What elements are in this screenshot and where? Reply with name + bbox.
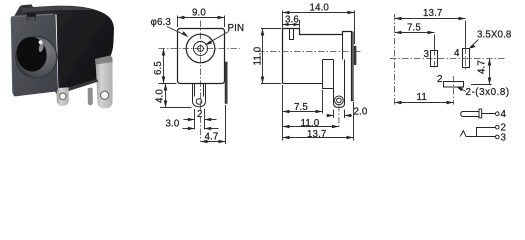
dim 7.5 top bbox=[395, 23, 435, 70]
svg-text:7.5: 7.5 bbox=[407, 23, 421, 34]
svg-text:4.7: 4.7 bbox=[477, 60, 488, 74]
label 2-(3x0.8) with leader bbox=[456, 87, 509, 98]
dim 9.0 bbox=[178, 8, 225, 28]
photo: face top edge highlight bbox=[12, 14, 52, 16]
photo: front face bbox=[11, 14, 58, 97]
svg-text:9.0: 9.0 bbox=[192, 8, 206, 19]
photo: face top notch bbox=[27, 13, 36, 21]
footprint left reference line bbox=[394, 14, 396, 105]
side body outline bbox=[283, 29, 354, 101]
svg-text:11: 11 bbox=[417, 92, 427, 103]
dim 2.0 bbox=[327, 107, 368, 119]
svg-text:4: 4 bbox=[454, 48, 460, 59]
dim 11 bottom bbox=[395, 76, 454, 105]
side pin2 dark tab bbox=[354, 46, 357, 65]
centerline horizontal bbox=[159, 48, 241, 50]
svg-text:7.5: 7.5 bbox=[294, 102, 308, 113]
svg-text:4: 4 bbox=[501, 109, 507, 120]
svg-text:11.0: 11.0 bbox=[253, 46, 264, 65]
svg-text:φ6.3: φ6.3 bbox=[151, 17, 172, 28]
dim 4.7 (vertical) bbox=[471, 59, 492, 85]
svg-text:3: 3 bbox=[424, 49, 430, 60]
dim 13.7 bottom bbox=[283, 102, 354, 141]
dim 14.0 bbox=[283, 3, 355, 45]
schematic plug symbol bbox=[461, 109, 496, 118]
photo: center pin bbox=[38, 40, 44, 52]
pad 2 bbox=[444, 82, 464, 88]
side centerline bbox=[258, 51, 362, 53]
svg-text:2: 2 bbox=[197, 109, 203, 120]
svg-text:6.5: 6.5 bbox=[153, 61, 164, 75]
svg-text:13.7: 13.7 bbox=[423, 8, 442, 19]
schematic terminal 2 wire bbox=[477, 128, 496, 137]
photo: metal lug B (right, large) bbox=[95, 56, 113, 109]
schematic terminal 4 bbox=[496, 112, 500, 116]
barrel circles bbox=[186, 34, 215, 63]
photo: body dark mass bbox=[14, 4, 114, 94]
bottom dims: ext lines bbox=[195, 105, 226, 144]
schematic terminal 3 wire with switch bbox=[460, 131, 495, 137]
photo: metal lug A (front small) bbox=[57, 87, 69, 106]
label 3.5X0.8 with leader bbox=[469, 30, 512, 49]
side internal line bbox=[342, 35, 344, 60]
dim 3.0 bbox=[166, 119, 219, 131]
svg-text:3.0: 3.0 bbox=[166, 119, 180, 130]
front lug pin below bbox=[193, 84, 206, 107]
front body square bbox=[178, 29, 225, 84]
dim 6.5 (vertical left) bbox=[153, 49, 177, 84]
svg-text:PIN: PIN bbox=[228, 23, 245, 34]
centerline vertical bbox=[200, 21, 202, 142]
pad 4 bbox=[463, 49, 470, 68]
dim 11.0 bottom bbox=[283, 105, 339, 129]
svg-text:4.0: 4.0 bbox=[155, 89, 166, 103]
svg-text:13.7: 13.7 bbox=[307, 129, 326, 140]
footprint centerline horizontal bbox=[390, 58, 505, 60]
svg-text:14.0: 14.0 bbox=[310, 3, 330, 14]
photo: barrel hole recess bbox=[14, 34, 57, 77]
dim 13.7 top bbox=[395, 8, 466, 70]
dim 2 bbox=[184, 109, 217, 121]
svg-text:2.0: 2.0 bbox=[354, 107, 368, 118]
label phi6.3 with leader bbox=[151, 17, 189, 37]
svg-text:2: 2 bbox=[437, 74, 443, 85]
dim 3.6 bbox=[283, 15, 300, 28]
label PIN with leader bbox=[205, 23, 244, 45]
dim 7.5 bbox=[283, 85, 323, 141]
dim 11.0 (vertical left) bbox=[253, 29, 282, 84]
dim 4.0 (vertical left lower) bbox=[155, 84, 192, 108]
side pin tab (edge-on, right) bbox=[225, 62, 227, 104]
photo: bottom edge sliver bbox=[55, 79, 99, 95]
side descending pin with hole bbox=[334, 60, 345, 108]
photo: top face light streak bbox=[21, 6, 93, 12]
svg-text:11.0: 11.0 bbox=[301, 118, 320, 129]
side slot (3.6) bbox=[290, 29, 294, 40]
svg-text:3: 3 bbox=[501, 132, 507, 143]
dim 4.7 bbox=[201, 131, 226, 143]
svg-text:3.6: 3.6 bbox=[285, 15, 299, 26]
pad 3 bbox=[431, 51, 438, 67]
svg-text:3.5X0.8: 3.5X0.8 bbox=[477, 30, 512, 41]
photo: metal pin middle (dim, behind) bbox=[88, 88, 93, 106]
svg-text:2-(3x0.8): 2-(3x0.8) bbox=[466, 87, 510, 98]
